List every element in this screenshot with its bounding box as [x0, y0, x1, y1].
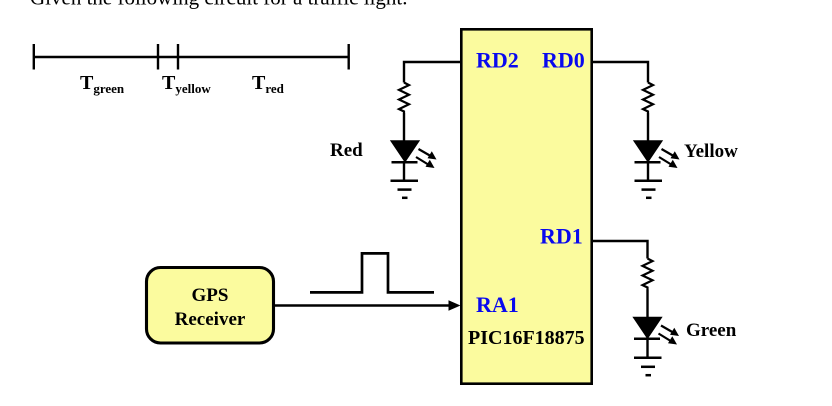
LED D1 red: [391, 141, 419, 162]
wire RD2 to red branch: [404, 62, 461, 83]
GPS receiver box: [147, 268, 274, 344]
svg-text:Yellow: Yellow: [684, 141, 738, 162]
wire D3 to ground: [646, 339, 648, 358]
ground (red branch): [391, 181, 419, 198]
LED D3 green: [633, 317, 661, 338]
LED D2 cathode bar: [635, 161, 661, 164]
tick T1: [157, 44, 159, 70]
svg-text:Green: Green: [686, 320, 737, 341]
wire D2 to ground: [647, 162, 649, 181]
ground (yellow branch): [635, 181, 663, 198]
resistor R1 (red branch): [399, 83, 409, 114]
LED D3 cathode bar: [634, 337, 660, 340]
ground (green branch): [634, 358, 662, 376]
svg-text:Receiver: Receiver: [175, 309, 246, 330]
svg-text:GPS: GPS: [192, 285, 229, 306]
wire GPS to RA1 with arrow: [275, 300, 461, 310]
wire R3 to LED D3: [646, 290, 648, 319]
wire RD1 to green branch: [592, 241, 648, 259]
wire D1 to ground: [403, 162, 405, 181]
svg-text:Tyellow: Tyellow: [162, 72, 211, 96]
svg-text:Given the following circuit fo: Given the following circuit for a traffi…: [30, 0, 408, 10]
LED D2 emission arrow 2: [659, 157, 678, 168]
svg-text:RD1: RD1: [540, 224, 583, 249]
wire R1 to LED D1: [403, 113, 405, 142]
resistor R2 (yellow branch): [643, 83, 653, 114]
tick T0: [33, 44, 35, 70]
LED D1 emission arrow 2: [416, 157, 435, 168]
timeline axis: [33, 56, 350, 58]
wire RD0 to yellow branch: [592, 62, 648, 83]
tick T2: [177, 44, 179, 70]
LED D1 emission arrow 1: [419, 149, 437, 160]
resistor R3 (green branch): [643, 259, 653, 290]
pulse waveform: [310, 253, 434, 292]
svg-text:Red: Red: [330, 140, 363, 161]
LED D3 emission arrow 1: [661, 326, 679, 337]
svg-text:RA1: RA1: [476, 292, 519, 317]
LED D2 emission arrow 1: [662, 149, 680, 160]
svg-text:Tred: Tred: [252, 72, 285, 96]
svg-text:PIC16F18875: PIC16F18875: [468, 327, 585, 349]
wire R2 to LED D2: [647, 113, 649, 142]
microcontroller U1 PIC16F18875: [461, 29, 591, 383]
LED D2 yellow: [634, 141, 662, 162]
tick T3: [348, 44, 350, 70]
LED D3 emission arrow 2: [659, 334, 678, 345]
svg-text:RD2: RD2: [476, 48, 519, 73]
svg-text:RD0: RD0: [542, 48, 585, 73]
LED D1 cathode bar: [392, 161, 418, 164]
svg-text:Tgreen: Tgreen: [80, 72, 125, 96]
